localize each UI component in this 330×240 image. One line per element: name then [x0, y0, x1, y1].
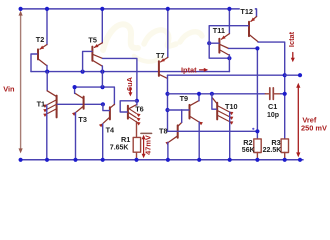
node ground T4 — [101, 158, 105, 162]
transistor T7 — [159, 57, 168, 78]
watermark — [103, 24, 202, 61]
wire T11 collector-2 to R2 — [229, 48, 258, 138]
wire T6 emitter to R1 — [136, 122, 138, 138]
transistor T1 — [43, 91, 56, 118]
wire Iptat/Vref output rail — [168, 74, 285, 76]
wire T12 collector to R3 — [258, 42, 285, 139]
svg-text:C1: C1 — [268, 102, 277, 111]
wire T11 base — [209, 42, 219, 44]
node T7 collector column at comp rail — [165, 92, 169, 96]
wire T7 emitter feed — [167, 9, 169, 58]
svg-text:T4: T4 — [106, 126, 115, 135]
wire T8 emitter drop — [167, 142, 169, 159]
wire T5 collector-1 drop — [101, 66, 103, 87]
svg-text:R3: R3 — [271, 138, 280, 147]
node C1 right junction — [283, 92, 287, 96]
node ground R1 — [134, 158, 138, 162]
svg-text:T9: T9 — [180, 94, 189, 103]
node T10 collector — [210, 92, 214, 96]
node T4 base junction — [101, 102, 105, 106]
wire T9 emitter drop — [198, 122, 200, 160]
node T11/T12 base junction — [207, 41, 211, 45]
node T5 collector junction — [100, 70, 104, 74]
wire T11 collector-1 drop — [228, 55, 230, 72]
svg-text:Ictat: Ictat — [287, 31, 296, 47]
transistor T5 — [92, 43, 102, 66]
wire T11 emitter feed — [228, 9, 230, 34]
capacitor C1 — [265, 88, 285, 100]
node T3 collector — [73, 85, 77, 89]
annotation 6uA — [125, 76, 134, 96]
wire T10 base loop — [212, 94, 216, 109]
wire T6 collector stub — [136, 101, 138, 105]
annotation 47mV measure — [141, 133, 153, 158]
node T9 base tap — [165, 108, 169, 112]
wire T4 emitter drop — [102, 124, 104, 160]
svg-text:T8: T8 — [159, 126, 168, 135]
resistor R3 — [281, 139, 288, 160]
node top rail Vin — [19, 7, 23, 11]
node Vref tap on T12 collector column — [283, 73, 287, 77]
svg-text:Iptat: Iptat — [181, 65, 197, 74]
svg-text:47mV: 47mV — [143, 135, 152, 155]
svg-text:T12: T12 — [240, 7, 253, 16]
node ground Vin — [19, 158, 23, 162]
wire Vref stub — [285, 74, 300, 76]
wire T12 base — [209, 26, 248, 44]
wire T6 base loop — [120, 101, 137, 112]
node top rail T11 — [227, 7, 231, 11]
node T5 collector tie — [100, 85, 104, 89]
annotation Iptat — [181, 65, 208, 74]
T12 label — [240, 7, 255, 16]
Vin measurement arrow — [19, 11, 23, 154]
svg-text:T6: T6 — [135, 104, 144, 113]
node top rail T2 — [45, 7, 49, 11]
wire T5 base loop — [83, 51, 92, 71]
wire T1-T3-T4 base rail — [57, 103, 103, 105]
node marker near R2 top — [252, 128, 254, 130]
node ground T8 — [166, 158, 170, 162]
node top rail T5 — [100, 7, 104, 11]
wire T11 diode loop — [209, 43, 229, 58]
svg-text:56K: 56K — [242, 147, 255, 154]
wire PNP base rail — [31, 71, 229, 73]
svg-text:R1: R1 — [121, 135, 130, 144]
transistor T2 — [38, 45, 47, 66]
transistor T9 — [190, 101, 203, 126]
transistor T10 — [212, 98, 233, 125]
svg-text:Vin: Vin — [3, 84, 15, 93]
transistor T6 — [128, 105, 141, 126]
node top rail T7 — [166, 7, 170, 11]
svg-text:T3: T3 — [78, 115, 87, 124]
svg-text:R2: R2 — [243, 138, 252, 147]
svg-text:7.65K: 7.65K — [110, 144, 129, 151]
node ground T1 — [45, 158, 49, 162]
svg-text:250 mV: 250 mV — [301, 124, 327, 133]
node T11 collector junction — [227, 56, 231, 60]
wire T8 base rail to R2 — [178, 130, 257, 132]
svg-text:T7: T7 — [156, 51, 165, 60]
transistor T12 — [249, 17, 258, 42]
node T5 base junction — [81, 70, 85, 74]
annotation Vref arrow — [296, 83, 300, 158]
node ground T9 — [197, 158, 201, 162]
transistor T8 — [165, 122, 181, 145]
wire T2 collector drop — [46, 65, 48, 71]
annotation Ictat — [287, 31, 296, 62]
wire T1 emitter drop — [46, 105, 48, 160]
wire T3 emitter drop — [75, 112, 77, 159]
wire T4 base loop — [103, 104, 110, 110]
node ground R3 — [283, 158, 287, 162]
resistor R2 — [254, 139, 261, 160]
svg-text:T10: T10 — [225, 102, 238, 111]
svg-text:T1: T1 — [37, 100, 46, 109]
node ground T10 — [228, 158, 232, 162]
node Vref stub end — [298, 73, 302, 77]
resistor R1 — [133, 137, 140, 159]
wire T5 emitter feed — [101, 9, 103, 43]
wire T2 emitter feed — [46, 9, 48, 45]
svg-text:22.5K: 22.5K — [263, 147, 282, 154]
wire compensation rail — [168, 93, 266, 95]
wire T9 base — [168, 109, 190, 111]
wire T8 collector riser — [181, 110, 183, 123]
wire T10 emitter drop — [229, 112, 231, 160]
node ground T3 — [73, 158, 77, 162]
wire T3 collector riser — [74, 87, 76, 93]
svg-text:T2: T2 — [36, 35, 45, 44]
wire top supply rail — [21, 9, 257, 17]
node T6 collector junction — [135, 99, 139, 103]
wire T2 base loop — [31, 54, 37, 72]
svg-text:T5: T5 — [88, 35, 97, 44]
node ground R2 — [255, 158, 259, 162]
node R2 feed junction — [255, 46, 259, 50]
wire T1 collector riser — [46, 72, 48, 91]
node T9 collector — [197, 92, 201, 96]
svg-text:6uA: 6uA — [125, 76, 134, 91]
wire PTAT collector rail — [75, 87, 115, 105]
node T2 collector-base junction — [45, 70, 49, 74]
node R2 top junction — [255, 129, 259, 133]
wire T9 collector riser — [198, 94, 200, 101]
svg-text:T11: T11 — [213, 26, 225, 35]
transistor T11 — [219, 34, 229, 55]
wire T5 collector-2 to T6 — [103, 58, 137, 100]
wire T7 collector drop — [167, 75, 169, 131]
wire T8 base link — [168, 130, 178, 132]
transistor T3 — [72, 93, 84, 116]
svg-text:10p: 10p — [267, 112, 279, 119]
node ground Vref — [298, 158, 302, 162]
transistor T4 — [99, 104, 114, 127]
wire bottom ground rail — [21, 159, 303, 161]
